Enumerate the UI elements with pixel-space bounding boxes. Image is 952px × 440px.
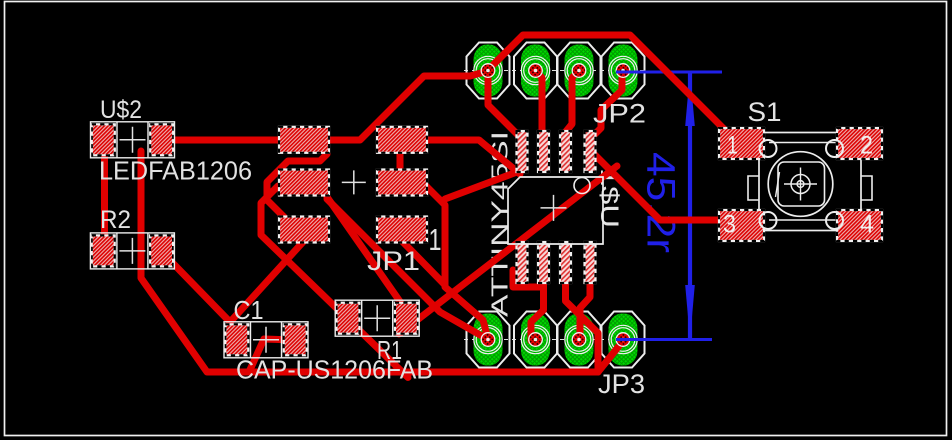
svg-text:U$2: U$2	[100, 96, 142, 124]
svg-text:1: 1	[727, 132, 738, 160]
svg-text:2: 2	[860, 132, 873, 160]
svg-text:LEDFAB1206: LEDFAB1206	[99, 156, 252, 186]
svg-text:JP3: JP3	[598, 369, 645, 399]
svg-text:S1: S1	[748, 97, 782, 127]
svg-text:3: 3	[723, 211, 736, 239]
svg-text:R2: R2	[100, 206, 131, 234]
svg-text:JP2: JP2	[593, 99, 646, 129]
svg-text:1: 1	[429, 222, 442, 257]
svg-text:CAP-US1206FAB: CAP-US1206FAB	[236, 355, 433, 385]
svg-text:C1: C1	[234, 295, 264, 325]
svg-text:JP1: JP1	[367, 246, 420, 276]
svg-text:4: 4	[860, 211, 874, 239]
svg-text:R1: R1	[377, 335, 402, 365]
